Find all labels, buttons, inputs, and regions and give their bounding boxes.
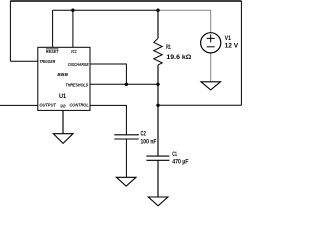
- svg-text:GND: GND: [60, 104, 66, 109]
- wire gnd stub: [62, 110, 64, 133]
- ground under C1: [148, 197, 168, 206]
- svg-text:OUTPUT: OUTPUT: [39, 103, 57, 108]
- svg-text:RESET: RESET: [46, 49, 60, 54]
- wire control to c2: [90, 105, 126, 134]
- wire right edge: [240, 1, 242, 106]
- junction c1 top loop: [156, 104, 159, 107]
- wire r1 top lead: [157, 10, 159, 38]
- wire reset stub: [52, 10, 54, 47]
- svg-text:R1: R1: [166, 44, 171, 51]
- wire discharge: [90, 64, 126, 84]
- wire threshold: [90, 83, 158, 85]
- ground under 555: [53, 134, 73, 144]
- svg-text:V1: V1: [225, 35, 232, 42]
- ground under V1: [201, 82, 221, 90]
- svg-text:CONTROL: CONTROL: [70, 103, 89, 108]
- svg-text:C2: C2: [141, 130, 147, 137]
- source V1 minus: [207, 46, 215, 48]
- ground under C2: [116, 177, 136, 186]
- junction vcc: [71, 9, 74, 12]
- wire r1 bottom to c1 top: [157, 65, 159, 156]
- source V1 plus: [207, 34, 215, 42]
- svg-text:19.6 kΩ: 19.6 kΩ: [166, 54, 191, 61]
- wire c1 bottom lead: [157, 160, 159, 197]
- svg-text:VCC: VCC: [71, 49, 77, 54]
- wire trigger: [10, 60, 37, 62]
- svg-text:100 nF: 100 nF: [141, 138, 157, 145]
- capacitor C1: [146, 156, 169, 160]
- svg-text:C1: C1: [172, 151, 177, 158]
- source V1 leads: [158, 10, 211, 82]
- IC 555 box U1: [38, 47, 90, 110]
- svg-text:THRESHOLD: THRESHOLD: [66, 82, 89, 87]
- wire output: [0, 104, 38, 106]
- svg-text:DISCHARGE: DISCHARGE: [68, 62, 89, 67]
- resistor R1: [154, 38, 162, 65]
- svg-text:U1: U1: [59, 93, 67, 100]
- svg-text:TRIGGER: TRIGGER: [39, 59, 56, 64]
- svg-text:470 µF: 470 µF: [172, 159, 188, 166]
- wire top rail: [10, 0, 241, 2]
- wire bottom right to C1 node: [158, 104, 241, 106]
- svg-text:555: 555: [57, 72, 69, 77]
- wire vcc rail: [53, 9, 158, 11]
- junction discharge-threshold: [125, 83, 128, 86]
- wire c2 bottom lead: [125, 139, 127, 177]
- source V1 circle: [201, 33, 221, 53]
- wire left vertical: [9, 1, 11, 61]
- wire vcc stub: [72, 10, 74, 47]
- junction threshold-c1: [156, 83, 159, 86]
- svg-text:12 V: 12 V: [225, 43, 239, 50]
- capacitor C2: [114, 135, 139, 139]
- junction r1 top: [156, 9, 159, 12]
- pin RESET overline: [46, 48, 59, 50]
